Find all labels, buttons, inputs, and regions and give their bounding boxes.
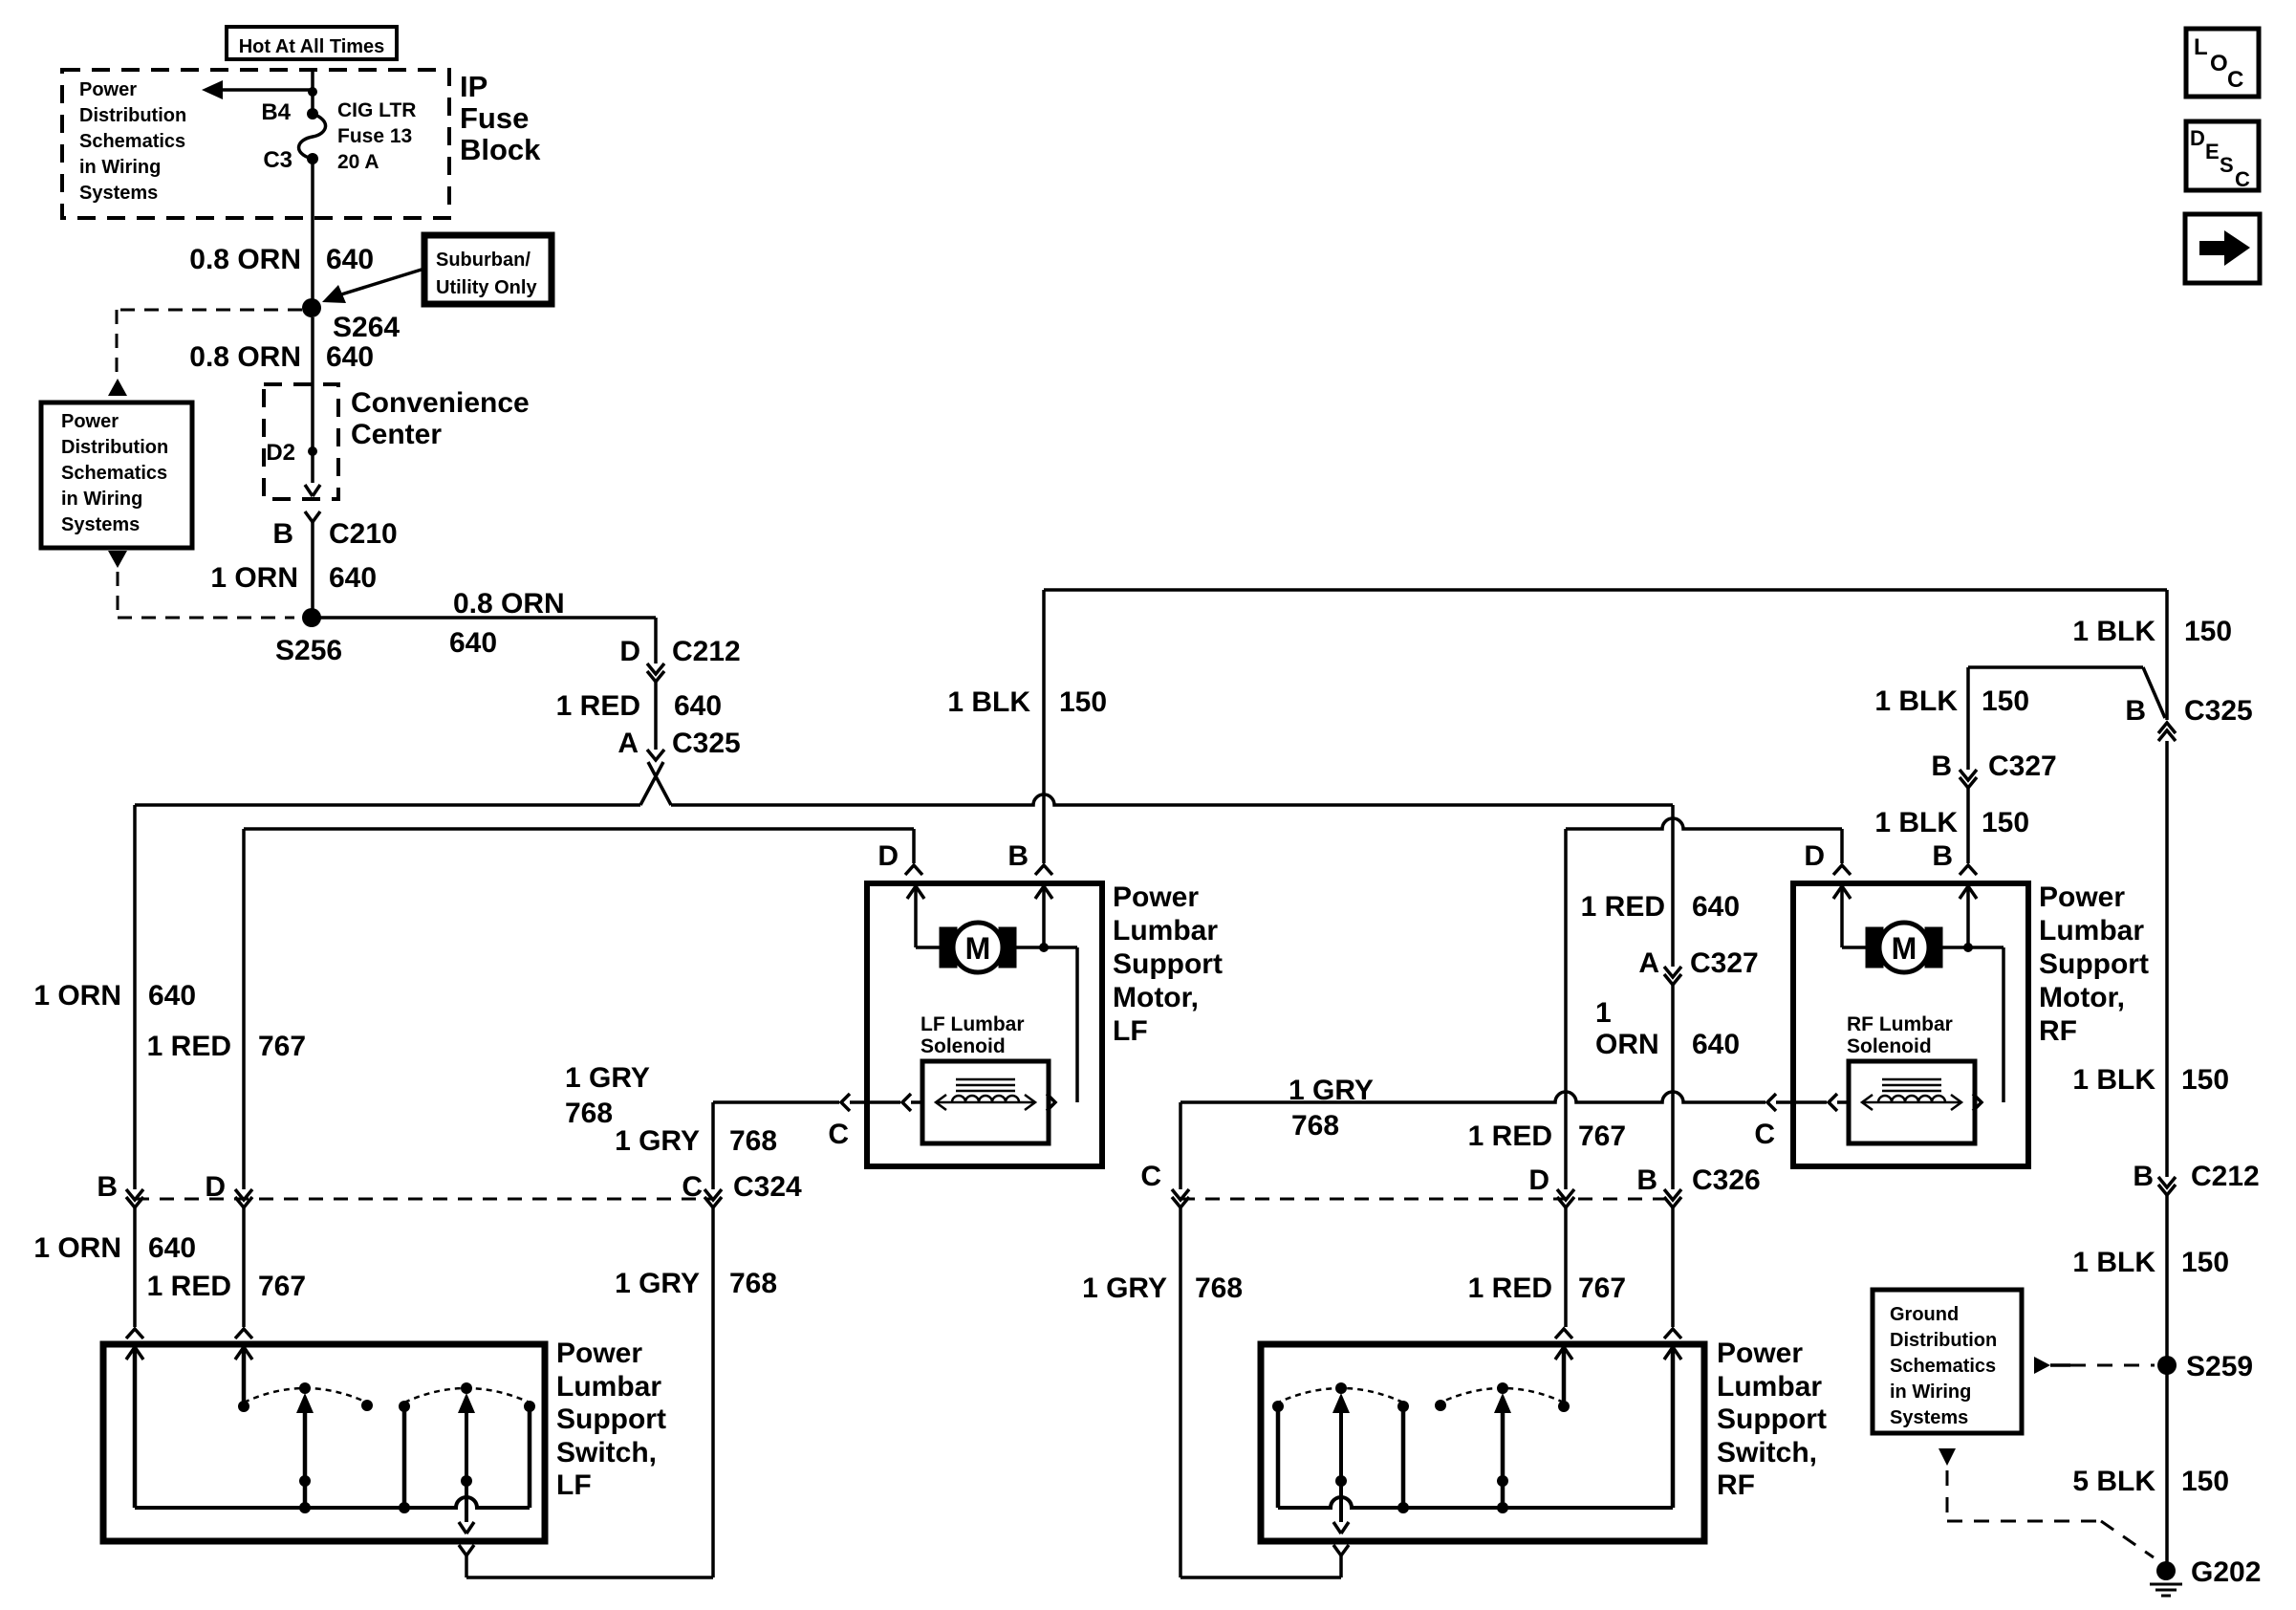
RF switch wiper arc 1 (dashed) [1278,1388,1403,1403]
svg-text:768: 768 [565,1098,613,1129]
svg-text:640: 640 [326,341,374,373]
wire RF motor D drop [1840,829,1844,863]
ground reference box 'Ground Distribution Schematics in Wiring Systems' [1873,1290,2022,1433]
svg-text:1 BLK: 1 BLK [2072,1064,2155,1096]
svg-text:C210: C210 [329,518,398,550]
wire RF switch C bottom run [1180,1576,1341,1579]
svg-text:M: M [1892,931,1917,966]
svg-text:Systems: Systems [1890,1407,1968,1428]
svg-text:C: C [682,1171,703,1203]
svg-text:LF: LF [1113,1015,1148,1047]
RF switch bus dot b [1397,1502,1409,1513]
svg-text:C327: C327 [1690,947,1759,979]
svg-text:1 GRY: 1 GRY [1289,1075,1374,1106]
wire arrow branch left [221,88,313,92]
wire RF B below C326 [1671,1207,1675,1327]
svg-text:D: D [205,1171,226,1203]
DESC legend box [2186,121,2259,190]
label 'Power Lumbar Support Motor, LF' [1113,881,1223,1047]
svg-text:Block: Block [460,133,541,166]
svg-text:in Wiring: in Wiring [61,489,142,510]
svg-text:1 ORN: 1 ORN [210,562,298,594]
svg-text:B: B [97,1171,118,1203]
svg-text:B: B [1636,1164,1657,1196]
splice fork below C325 (X split) [648,762,671,805]
RF switch bus dot a [1497,1502,1508,1513]
svg-text:B: B [2125,695,2146,727]
svg-text:Distribution: Distribution [61,437,168,458]
svg-text:RF Lumbar: RF Lumbar [1847,1013,1953,1035]
svg-text:1 GRY: 1 GRY [565,1062,650,1094]
RF motor internal pin B arrow [1960,886,1977,899]
power lumbar support motor LF box [867,883,1102,1166]
fuse label 'CIG LTR Fuse 13 20 A' [337,99,416,173]
triangle arrow down (ground ref) [1939,1448,1956,1466]
label 'Power Lumbar Support Switch, LF' [556,1338,666,1501]
svg-text:767: 767 [258,1271,306,1302]
wire 1 BLK 150 LF motor B riser [1042,590,1046,863]
svg-text:1 BLK: 1 BLK [2072,616,2155,647]
wire bus RED 640 right with hop over BLK riser [671,794,1673,805]
svg-text:D: D [877,840,899,872]
RF switch wiper dot 2 [1497,1382,1508,1394]
svg-text:1 BLK: 1 BLK [947,686,1030,718]
LOC legend box [2186,29,2259,97]
fuse F13 symbol (S-curve) [299,114,326,159]
svg-text:Lumbar: Lumbar [1113,915,1218,946]
svg-text:20 A: 20 A [337,151,379,173]
svg-text:1 BLK: 1 BLK [2072,1247,2155,1278]
svg-text:Power: Power [556,1338,642,1369]
dashed link ground ref to G202 [1946,1470,1949,1521]
splice S256 dot [302,608,321,627]
connector C324 pin D symbol [235,1189,252,1200]
wire LF D below C324 [242,1207,246,1327]
junction dot LF motor B to riser [1039,943,1049,952]
wire 1 ORN 640 LF switch B riser [133,805,137,1189]
svg-text:Systems: Systems [61,514,140,535]
svg-text:Distribution: Distribution [79,105,186,126]
RF switch bus bar with hop [1278,1497,1673,1508]
RF solenoid coil [1878,1096,1945,1102]
svg-text:767: 767 [1578,1273,1626,1304]
triangle arrow right (ground ref) [2034,1357,2050,1374]
connector half at LF motor pin D [905,865,922,875]
svg-text:Schematics: Schematics [61,463,167,484]
LF lumbar solenoid box [922,1061,1049,1143]
svg-text:1 RED: 1 RED [556,690,640,722]
RF switch arm mid dot [1497,1475,1508,1487]
LF switch bus dot a [299,1502,311,1513]
LF switch contact dot (D) [238,1401,249,1412]
LF switch wiper arc 2 (dashed) [404,1388,530,1403]
svg-text:640: 640 [1692,1029,1740,1060]
svg-text:640: 640 [329,562,377,594]
RF switch arm (arrow up) [1494,1393,1511,1413]
svg-text:D2: D2 [266,440,295,466]
splice S264 dot [302,298,321,317]
motor M symbol RF [1866,927,1883,968]
svg-text:C325: C325 [2184,695,2253,727]
svg-text:Lumbar: Lumbar [556,1371,661,1403]
svg-text:Utility Only: Utility Only [436,277,537,298]
motor M symbol LF [940,927,957,968]
svg-text:C326: C326 [1692,1164,1761,1196]
LF switch arm 2 exit arrowhead [459,1522,474,1534]
wire LF GRY below C324 [711,1207,715,1577]
svg-text:Solenoid: Solenoid [921,1035,1006,1057]
power lumbar support switch RF box [1261,1344,1704,1541]
connector C327 pin A symbol [1664,967,1681,977]
wire 1 ORN 640 below C327 [1671,985,1675,1189]
svg-text:Power: Power [61,411,119,432]
LF solenoid core lines [956,1078,1015,1081]
svg-text:150: 150 [2181,1466,2229,1497]
wire bus RED 767 RF with hop [1566,818,1842,829]
svg-text:Solenoid: Solenoid [1847,1035,1932,1057]
label 'Power Lumbar Support Motor, RF' [2039,881,2149,1047]
svg-text:C3: C3 [263,147,292,173]
LF switch contact dot (g2 left) [399,1401,410,1412]
LF solenoid double arrow [936,1101,1035,1104]
wire 1 RED 767 LF switch D riser [242,829,246,1189]
svg-text:767: 767 [1578,1120,1626,1152]
svg-text:S264: S264 [333,312,400,343]
arrowhead down into convenience center [305,485,320,496]
svg-text:640: 640 [148,1232,196,1264]
label 'IP Fuse Block' [460,70,541,166]
connector C324 pin B symbol [126,1189,143,1200]
svg-text:5 BLK: 5 BLK [2072,1466,2155,1497]
connector C326 pin C symbol [1172,1189,1189,1200]
svg-text:1 ORN: 1 ORN [33,1232,121,1264]
LF motor internal pin B arrow [1035,886,1052,899]
wire 1 ORN 640 C210 to S256 [311,522,314,610]
svg-text:Schematics: Schematics [79,131,185,152]
svg-text:0.8 ORN: 0.8 ORN [189,244,301,275]
LF motor internal pin D arrow [907,886,924,899]
svg-text:Fuse 13: Fuse 13 [337,125,412,147]
svg-text:640: 640 [674,690,722,722]
Convenience Center dashed outline [264,384,338,499]
wire RF D below C326 [1564,1207,1568,1327]
svg-text:1: 1 [1595,997,1612,1029]
svg-text:Lumbar: Lumbar [1717,1371,1822,1403]
svg-text:0.8 ORN: 0.8 ORN [189,341,301,373]
svg-text:B: B [1931,751,1952,782]
ground G202 symbol [2150,1583,2182,1586]
svg-text:ORN: ORN [1595,1029,1659,1060]
dashed link box to S256 [117,572,119,613]
wire RF B below C327 [1966,788,1970,863]
svg-text:L: L [2194,34,2208,60]
wire 1 RED 640 C212 to C325 [654,682,658,750]
svg-text:Support: Support [1113,948,1223,980]
LF solenoid right chevron [1047,1094,1055,1111]
svg-text:Lumbar: Lumbar [2039,915,2144,946]
svg-text:D: D [1528,1164,1549,1196]
svg-text:Power: Power [2039,881,2125,913]
svg-text:767: 767 [258,1031,306,1062]
power lumbar support motor RF box [1793,883,2028,1166]
connector C326 pin B symbol [1664,1189,1681,1200]
LF solenoid coil [952,1096,1019,1102]
splice S259 dot [2157,1356,2177,1375]
svg-text:1 RED: 1 RED [147,1031,231,1062]
terminal C3 dot [307,153,318,164]
connector half at LF switch pin B [126,1329,143,1338]
dashed link ground ref to S259 [2050,1363,2070,1367]
svg-text:1 RED: 1 RED [147,1271,231,1302]
svg-text:Motor,: Motor, [1113,982,1199,1013]
wire 0.8 ORN 640 S256 to C212 [312,616,656,620]
LF switch arm 2 mid dot [461,1475,472,1487]
svg-text:D: D [1804,840,1825,872]
svg-text:150: 150 [2184,616,2232,647]
connector half at LF motor pin B [1035,865,1052,875]
svg-text:B: B [272,518,293,550]
svg-text:Motor,: Motor, [2039,982,2125,1013]
svg-text:1 RED: 1 RED [1468,1273,1552,1304]
svg-text:640: 640 [449,627,497,659]
connector C325 pin B symbol (up) [2158,730,2176,741]
svg-text:150: 150 [2181,1247,2229,1278]
svg-text:C: C [2235,167,2250,191]
svg-text:in Wiring: in Wiring [1890,1382,1971,1403]
svg-text:1 BLK: 1 BLK [1874,685,1958,717]
connector half at LF switch pin D [235,1329,252,1338]
svg-text:C212: C212 [672,636,741,667]
wire 1 RED 640 RF riser from bus [1671,805,1675,967]
svg-text:RF: RF [2039,1015,2077,1047]
connector C324 dashed line [135,1198,713,1201]
LF switch contact dot (g2 right) [524,1401,535,1412]
RF switch dead contact dot [1435,1400,1446,1411]
connector C210 pin B half (goalpost) [305,511,320,522]
svg-text:Suburban/: Suburban/ [436,250,531,271]
svg-text:Support: Support [556,1403,666,1435]
svg-text:1 GRY: 1 GRY [1082,1273,1167,1304]
svg-text:G202: G202 [2191,1556,2261,1588]
wire LF B below C324 [133,1207,137,1327]
svg-text:O: O [2210,51,2228,76]
svg-text:Support: Support [2039,948,2149,980]
svg-text:D: D [2190,126,2205,150]
RF switch contact dot (g1 right) [1397,1401,1409,1412]
svg-text:150: 150 [1982,807,2029,838]
reference box 'Power Distribution Schematics in Wiring Systems' [41,402,192,548]
wire right BLK below C325 B [2165,741,2169,1177]
power lumbar support switch LF box [103,1344,545,1541]
node junction dot at arrow branch [308,87,317,97]
RF switch internal D arm [1555,1347,1572,1360]
svg-text:Systems: Systems [79,183,158,204]
wire RF solenoid C feed with hops [1180,1092,1765,1102]
wire corner down to C212 [654,618,658,664]
svg-text:C: C [1140,1161,1161,1192]
IP Fuse Block dashed outline [62,70,449,218]
svg-text:640: 640 [326,244,374,275]
RF switch arm 2 mid dot [1335,1475,1347,1487]
connector half at RF switch pin B [1664,1329,1681,1338]
svg-text:768: 768 [729,1268,777,1299]
LF switch internal B arm [126,1347,143,1360]
connector C327 pin B symbol [1960,770,1977,780]
RF switch contact dot (g1 left) [1272,1401,1284,1412]
RF motor pin C chevrons [1767,1094,1776,1111]
note box 'Suburban/Utility Only' [424,235,552,304]
svg-text:RF: RF [1717,1469,1755,1501]
connector C324 pin C symbol [704,1189,722,1200]
svg-text:C: C [828,1119,849,1150]
arrow legend box [2185,214,2260,283]
RF solenoid core lines [1882,1078,1941,1081]
wire 1 GRY 768 LF C riser [711,1102,715,1189]
LF switch pin C goalpost [459,1545,474,1556]
connector C212 pin D symbol [647,664,664,674]
svg-text:C212: C212 [2191,1161,2260,1192]
wire LF motor D drop [912,829,916,863]
svg-text:1 RED: 1 RED [1581,891,1665,923]
svg-text:S259: S259 [2186,1351,2253,1382]
wire LF solenoid C to corner [713,1100,839,1104]
svg-text:Ground: Ground [1890,1304,1959,1325]
LF switch wiper arc 1 (dashed) [244,1388,367,1403]
svg-text:D: D [619,636,640,667]
svg-text:Power: Power [1113,881,1199,913]
wire S264 to convenience center [311,317,314,483]
LF switch dead contact dot [361,1400,373,1411]
RF switch contact dot (D) [1558,1401,1570,1412]
wire right BLK below C212 [2165,1195,2169,1571]
wire right BLK down to C325 B [2165,590,2169,720]
RF switch internal B arm [1664,1347,1681,1360]
svg-text:Center: Center [351,419,442,450]
svg-text:0.8 ORN: 0.8 ORN [453,588,565,620]
svg-text:Switch,: Switch, [556,1437,657,1469]
RF switch wiper arc 2 (dashed) [1440,1388,1564,1403]
RF solenoid double arrow [1862,1101,1961,1104]
RF switch pin C goalpost [1333,1545,1349,1556]
svg-text:CIG LTR: CIG LTR [337,99,416,121]
svg-text:C324: C324 [733,1171,802,1203]
svg-text:768: 768 [729,1125,777,1157]
arrow from Suburban note to S264 [341,269,424,294]
RF switch arm 2 exit arrowhead [1333,1522,1349,1534]
RF motor internal pin D arrow [1833,886,1851,899]
svg-text:S256: S256 [275,635,342,666]
wire RF motor to solenoid riser [1942,946,2004,949]
svg-text:Power: Power [1717,1338,1803,1369]
wire 0.8 ORN 640 fuse to S264 [311,159,314,300]
svg-text:768: 768 [1195,1273,1243,1304]
svg-text:M: M [965,931,991,966]
ground G202 dot [2156,1561,2176,1580]
svg-text:1 ORN: 1 ORN [33,980,121,1012]
terminal D2 dot [308,446,317,456]
dashed link S264 to power distribution box [117,309,302,312]
label box 'Hot At All Times' [227,27,397,59]
svg-text:C: C [1754,1119,1775,1150]
RF switch arm 2 (C output) [1332,1393,1350,1413]
svg-text:1 GRY: 1 GRY [615,1268,700,1299]
RF lumbar solenoid box [1849,1061,1975,1143]
svg-text:C327: C327 [1988,751,2057,782]
terminal B4 dot [307,108,318,120]
LF switch arm 1 (arrow up) [296,1393,314,1413]
svg-text:C: C [2227,67,2243,93]
svg-text:Convenience: Convenience [351,387,530,419]
svg-text:1 RED: 1 RED [1468,1120,1552,1152]
svg-text:LF Lumbar: LF Lumbar [921,1013,1025,1035]
LF switch internal D arm [235,1347,252,1360]
wire LF motor to solenoid riser [1016,946,1077,949]
svg-text:768: 768 [1291,1110,1339,1142]
arrowhead left (to power distribution) [202,80,223,99]
LF switch bus dot b [399,1502,410,1513]
svg-text:B: B [1007,840,1029,872]
wire LF switch C bottom run [466,1576,713,1579]
triangle arrow up (power distribution ref) [108,379,127,396]
svg-text:Switch,: Switch, [1717,1437,1817,1469]
svg-text:640: 640 [1692,891,1740,923]
LF switch wiper dot 2 [461,1382,472,1394]
connector half at RF switch pin D [1555,1329,1572,1338]
wire fuse feed from box top [311,70,314,114]
wire RF GRY below C326 [1179,1207,1182,1577]
svg-text:150: 150 [1982,685,2029,717]
junction dot RF motor B to riser [1963,943,1973,952]
svg-text:Hot At All Times: Hot At All Times [239,36,385,57]
svg-text:S: S [2220,153,2234,177]
svg-text:B4: B4 [261,99,291,125]
svg-text:B: B [2133,1161,2154,1192]
note 'Power Distribution Schematics in Wiring Systems' (fuse block) [79,79,186,204]
LF switch wiper dot 1 [299,1382,311,1394]
RF switch wiper dot 1 [1335,1382,1347,1394]
connector half at RF motor pin D [1833,865,1851,875]
wire 1 RED 767 RF switch D riser [1564,829,1568,1189]
wire 1 BLK 150 RF motor B riser [1966,667,1970,770]
wire bus RED 767 LF (motor D to switch D) [244,827,914,831]
svg-text:A: A [617,728,639,759]
svg-text:B: B [1932,840,1953,872]
svg-text:E: E [2205,140,2220,163]
svg-text:IP: IP [460,70,487,103]
svg-text:640: 640 [148,980,196,1012]
connector C325 pin A symbol [647,750,664,760]
svg-text:Schematics: Schematics [1890,1356,1996,1377]
wire bus RED 640 left (to LF switch B) [135,803,640,807]
svg-text:1 BLK: 1 BLK [1874,807,1958,838]
svg-text:Support: Support [1717,1403,1827,1435]
connector C212 pin B symbol [2158,1177,2176,1187]
svg-text:C325: C325 [672,728,741,759]
svg-text:A: A [1638,947,1659,979]
svg-text:LF: LF [556,1469,592,1501]
RF solenoid right chevron [1973,1094,1982,1111]
svg-text:Fuse: Fuse [460,101,529,135]
svg-text:150: 150 [1059,686,1107,718]
triangle arrow down (power distribution ref) [108,551,127,568]
connector C326 pin D symbol [1557,1189,1574,1200]
wire top BLK 150 bus [1044,588,2167,592]
svg-text:Power: Power [79,79,137,100]
svg-text:150: 150 [2181,1064,2229,1096]
LF switch bus bar with hop [135,1497,530,1508]
label 'Power Lumbar Support Switch, RF' [1717,1338,1827,1501]
LF motor pin C chevrons [841,1094,850,1111]
